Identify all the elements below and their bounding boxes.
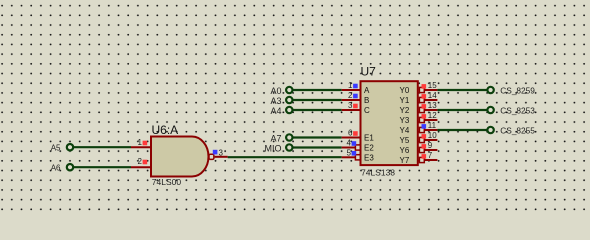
wire Y0 to CS_8259 xyxy=(437,89,487,91)
U7 pin 13 stub xyxy=(424,109,437,111)
U7 pin 10 logic square (red) xyxy=(422,134,427,139)
U7 pin 1 stub (A) xyxy=(342,89,360,91)
svg-text:Y3: Y3 xyxy=(400,116,410,125)
svg-text:Y6: Y6 xyxy=(400,146,410,155)
wire Y4 to CS_8255 xyxy=(437,129,487,131)
terminal A5 xyxy=(51,143,73,152)
svg-text:3: 3 xyxy=(348,101,353,110)
U6:A pin 2 logic square (red) xyxy=(143,160,148,165)
U7 pin 7 bubble (Y7) xyxy=(419,157,424,162)
U7 pin 11 logic square (blue) xyxy=(422,124,427,129)
U6:A output inversion bubble xyxy=(209,154,214,159)
wire U6:A output to U7 E3 xyxy=(228,156,342,158)
U6:A pin 3 stub xyxy=(215,156,228,158)
U6:A pin 1 stub xyxy=(131,146,151,148)
U7 pin 5 logic square (blue) xyxy=(352,151,357,156)
svg-text:2: 2 xyxy=(348,91,353,100)
U7 pin 14 bubble (Y1) xyxy=(419,97,424,102)
svg-text:1: 1 xyxy=(138,138,143,147)
svg-text:A4: A4 xyxy=(270,106,281,116)
svg-text:Y4: Y4 xyxy=(400,126,410,135)
svg-text:11: 11 xyxy=(428,121,437,130)
terminal A3 xyxy=(270,96,292,106)
svg-text:7: 7 xyxy=(428,151,433,160)
svg-text:A7: A7 xyxy=(270,133,281,143)
svg-text:Y1: Y1 xyxy=(400,96,410,105)
svg-text:2: 2 xyxy=(138,157,143,166)
U7 pin 13 logic square (red) xyxy=(422,104,427,109)
terminal A6 xyxy=(51,163,73,172)
U7 pin 11 stub xyxy=(424,129,437,131)
svg-text:A3: A3 xyxy=(270,96,281,106)
wire A6 to U6:A pin 2 xyxy=(74,166,131,168)
svg-text:74LS138: 74LS138 xyxy=(361,168,395,178)
terminal A7 xyxy=(270,133,292,143)
U7 pin 15 bubble (Y0) xyxy=(419,87,424,92)
U7 pin 7 stub xyxy=(424,159,437,161)
svg-text:E2: E2 xyxy=(364,143,374,152)
svg-text:1: 1 xyxy=(348,81,353,90)
U7 pin 14 logic square (red) xyxy=(422,94,427,99)
wire A5 to U6:A pin 1 xyxy=(74,146,131,148)
svg-text:Y7: Y7 xyxy=(400,156,410,165)
U7 pin 5 stub (E3) xyxy=(342,156,356,158)
wire A3 to U7 pin 2 xyxy=(293,99,342,101)
U7 pin 15 logic square (red) xyxy=(422,84,427,89)
svg-text:13: 13 xyxy=(428,101,437,110)
U7 pin 6 logic square (red) xyxy=(353,131,358,136)
svg-text:A0: A0 xyxy=(270,86,281,96)
U7 pin 12 stub xyxy=(424,119,437,121)
svg-text:CS_8255: CS_8255 xyxy=(500,126,535,136)
U7 pin 10 stub xyxy=(424,139,437,141)
U7 pin 12 bubble (Y3) xyxy=(419,117,424,122)
svg-text:5: 5 xyxy=(347,148,352,157)
svg-text:A6: A6 xyxy=(51,163,61,172)
svg-text:10: 10 xyxy=(428,131,437,140)
U7 pin 4 inversion bubble xyxy=(355,145,360,150)
U7 pin 2 logic square (blue) xyxy=(353,94,358,99)
terminal MIO xyxy=(265,143,293,153)
U7 pin 9 bubble (Y6) xyxy=(419,147,424,152)
U7 pin 2 stub (B) xyxy=(342,99,360,101)
terminal CS_8255 xyxy=(487,126,535,136)
U7 pin 12 logic square (red) xyxy=(422,114,427,119)
svg-text:9: 9 xyxy=(428,141,433,150)
nand gate U6:A body xyxy=(151,137,208,177)
svg-text:U7: U7 xyxy=(361,65,377,79)
wire A0 to U7 pin 1 xyxy=(293,89,342,91)
svg-text:14: 14 xyxy=(428,91,437,100)
svg-text:CS_8253: CS_8253 xyxy=(500,106,535,116)
svg-text:Y5: Y5 xyxy=(400,136,410,145)
U7 pin 14 stub xyxy=(424,99,437,101)
U7 pin 1 logic square (blue) xyxy=(353,84,358,89)
U7 pin 15 stub xyxy=(424,89,437,91)
terminal A0 xyxy=(270,86,292,96)
U6:A pin 1 logic square (red) xyxy=(143,141,148,146)
svg-text:E3: E3 xyxy=(364,153,374,162)
U7 pin 3 logic square (red) xyxy=(353,104,358,109)
svg-text:MIO: MIO xyxy=(265,143,282,153)
wire MIO to U7 pin 4 xyxy=(293,146,342,148)
svg-text:U6:A: U6:A xyxy=(152,123,179,137)
U7 pin 3 stub (C) xyxy=(342,109,360,111)
U6:A pin 2 stub xyxy=(131,166,151,168)
svg-text:74LS00: 74LS00 xyxy=(152,177,182,187)
svg-text:E1: E1 xyxy=(364,133,374,142)
svg-text:6: 6 xyxy=(348,129,353,138)
wire A4 to U7 pin 3 xyxy=(293,109,342,111)
U7 pin 4 logic square (blue) xyxy=(352,141,357,146)
U7 pin 9 logic square (red) xyxy=(422,144,427,149)
svg-text:B: B xyxy=(364,96,369,105)
svg-text:12: 12 xyxy=(428,111,437,120)
svg-text:Y2: Y2 xyxy=(400,106,410,115)
U7 pin 10 bubble (Y5) xyxy=(419,137,424,142)
svg-text:4: 4 xyxy=(347,139,352,148)
U7 pin 9 stub xyxy=(424,149,437,151)
svg-text:Y0: Y0 xyxy=(400,86,410,95)
terminal A4 xyxy=(270,106,292,116)
U7 pin 4 stub (E2) xyxy=(342,147,356,149)
svg-text:CS_8259: CS_8259 xyxy=(500,86,535,96)
svg-text:A: A xyxy=(364,86,370,95)
U7 pin 5 inversion bubble xyxy=(355,155,360,160)
terminal CS_8253 xyxy=(487,106,535,116)
U6:A pin 3 logic square (blue) xyxy=(213,150,218,155)
U7 pin 7 logic square (red) xyxy=(422,154,427,159)
U7 pin 13 bubble (Y2) xyxy=(419,107,424,112)
svg-text:3: 3 xyxy=(219,148,224,157)
wire A7 to U7 pin 6 xyxy=(293,136,342,138)
U7 pin 11 bubble (Y4) xyxy=(419,127,424,132)
svg-text:15: 15 xyxy=(428,81,437,90)
terminal CS_8259 xyxy=(487,86,535,96)
IC U7 74LS138 body xyxy=(361,81,418,165)
svg-text:C: C xyxy=(364,106,370,115)
wire Y2 to CS_8253 xyxy=(437,109,487,111)
U7 pin 6 stub (E1) xyxy=(342,137,360,139)
svg-text:A5: A5 xyxy=(51,143,61,152)
